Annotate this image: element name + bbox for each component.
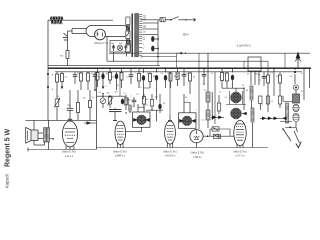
resistor R12 [77,90,80,120]
title Regent 5 W (model, rotated) [5,128,12,167]
svg-text:10: 10 [258,75,261,77]
oscillator coil core [211,92,213,120]
svg-text:50: 50 [193,76,196,78]
svg-text:125: 125 [143,27,146,29]
wire x96.5 drop [96,72,98,150]
resistor R10 [138,68,141,88]
tube VA grid cap [113,114,117,121]
svg-text:s EBF 2 n: s EBF 2 n [115,156,126,158]
svg-text:2: 2 [261,105,262,107]
label tube VD [233,151,247,157]
svg-text:0,1: 0,1 [146,104,149,106]
wire bus B+ top (y53) [109,52,310,54]
capacitor C15 [262,72,267,86]
label R2 value [60,56,64,58]
svg-text:0,1: 0,1 [225,97,228,99]
svg-text:0,5: 0,5 [57,96,60,98]
bandfilter arrow right [242,112,247,115]
wire speaker top bus y120.3 [26,119,97,121]
mains plug arrow [185,18,195,21]
fuse F1 [141,18,165,22]
svg-text:468: 468 [127,99,130,101]
label capacitor note [237,45,252,47]
antenna coil oval 1 [293,104,299,111]
label osc values [242,85,248,93]
capacitor C11 [132,97,137,107]
oscillator coil L2 [206,53,210,110]
wire x274 [273,68,275,96]
diode D5 [268,117,272,121]
wire bus y65.6 [48,65,160,67]
transformer taps [139,15,142,56]
resistor R8 [115,72,118,90]
resistor R24b [259,96,262,110]
svg-text:(Valvo E.Tel.): (Valvo E.Tel.) [233,151,247,153]
svg-text:1n: 1n [211,73,213,75]
svg-text:0,1: 0,1 [132,106,135,108]
misc speckle labels [57,85,303,122]
electrolytic C9 [142,68,145,88]
wave trap box [248,57,261,71]
wire bus y71.8 [55,71,302,73]
coupling capacitor C10 [67,90,74,119]
wire mains tap vertical [157,20,159,57]
capacitor C7 [109,68,112,84]
resistor R4 [61,72,64,89]
svg-text:50: 50 [219,92,221,94]
antenna symbol [295,52,301,69]
diode D3 [260,117,272,121]
wire OT connections [34,120,54,149]
resistor R16 [217,95,220,114]
wire HT feed vertical [47,20,49,65]
diode D4 [272,117,282,121]
svg-text:0,1: 0,1 [271,101,274,103]
svg-text:(Valvo E.Tel.): (Valvo E.Tel.) [191,153,205,155]
switch blade diagonal [282,128,291,141]
wire x285 y56-68 [284,53,286,68]
bandfilter coil block 1 [230,92,241,103]
resistor R27 horizontal [214,134,221,138]
wire rounded-loop drop [106,37,108,41]
diode D6 [282,117,287,121]
wire vertical T1 bottom to y56.5 [140,57,142,58]
svg-text:0,1: 0,1 [270,73,274,75]
capacitor C5 [73,72,78,84]
resistor R7 [96,68,99,87]
svg-text:0,1: 0,1 [99,92,102,94]
tuning capacitor plates CA [109,108,122,114]
svg-text:ZF: ZF [136,94,139,96]
resistor R6 [87,72,90,90]
coil L1 [125,95,128,110]
label tube VA [113,151,127,157]
tiny value labels row2 [167,73,303,79]
tube VA pins [118,143,124,148]
resistor R17 [164,68,167,88]
svg-text:0,1: 0,1 [92,97,95,99]
potentiometer P1 volume [54,92,60,120]
pilot lamp box [110,41,131,53]
tube VA [115,121,126,144]
resistor R15 [150,94,153,110]
IF transformer can 2 [179,113,197,129]
IF1 tuning arrow left [133,118,138,122]
svg-text:0,1: 0,1 [161,73,165,75]
filter capacitor C3 electrolytic [151,36,159,42]
svg-text:1M: 1M [106,73,109,75]
svg-text:5k: 5k [247,74,250,76]
svg-text:2n: 2n [301,73,303,75]
wire right links [280,96,296,128]
svg-text:(Valvo E.Tel.): (Valvo E.Tel.) [113,151,127,153]
resistor R14 [143,94,146,110]
svg-text:4V: 4V [143,39,146,41]
wire y96 segment [97,96,127,97]
antenna coil oval 2 [293,113,299,121]
diode arrow D1 [84,121,97,125]
wire bus y62 [107,60,268,62]
output tube V1 [62,121,77,147]
svg-text:0: 0 [143,44,144,46]
wire x244 y62-68 [243,61,245,68]
resistor R2 [66,47,69,66]
antenna coil L5 [251,108,254,148]
resistor R3 [56,72,59,92]
resistor R21 [221,68,224,88]
svg-text:0,1: 0,1 [202,120,205,122]
svg-text:s AB 2 n: s AB 2 n [193,156,202,159]
wire y110 segment [146,110,163,111]
svg-text:(Valvo E.Tel.): (Valvo E.Tel.) [62,152,76,154]
resistor R26 [278,96,281,108]
label tilde [183,32,185,35]
resistor R25 [279,72,282,96]
resistor R13 [89,90,92,121]
output transformer T2 [44,128,50,143]
junction dots on buses [56,67,305,69]
svg-text:4µF: 4µF [119,43,123,45]
svg-text:Regent 5 W: Regent 5 W [5,128,12,167]
label tube VC [191,153,205,159]
potentiometer P2 [108,95,113,108]
svg-text:µµ: µµ [242,85,245,87]
wire x156.5 [156,110,158,121]
label tube VB [163,151,177,157]
svg-text:0,5: 0,5 [204,90,207,92]
wire bus y56.5 [141,56,177,58]
svg-text:s ECH 3 n: s ECH 3 n [165,156,176,158]
svg-text:4µF: 4µF [111,43,115,45]
heater loop around rectifier [86,26,129,37]
wire IF1 top connections [138,104,144,112]
wire VC cathode down [196,143,198,148]
oscillator coil L3 [206,110,210,128]
electrolytic C9b [155,68,158,100]
resistor R22 [226,72,229,88]
title Kapsch (brand, rotated) [5,173,10,188]
svg-text:950: 950 [60,56,64,58]
label rectifier (Valvo) VY2 [94,42,108,45]
tube VD pins [237,145,243,148]
svg-text:0,2: 0,2 [290,76,294,78]
svg-text:0,3: 0,3 [139,87,142,89]
tube VB [165,121,176,144]
labels filter caps [111,43,123,45]
capacitor C13 [182,68,187,86]
resistor R9 [120,68,123,88]
resistor R20 [189,72,192,94]
tube VB grid cap [168,115,172,121]
svg-text:10: 10 [301,91,303,93]
pilot lamp La [117,45,122,50]
tube VC [190,130,203,143]
ground wire diagonal [294,127,300,143]
tube VD [234,120,246,145]
svg-text:1: 1 [195,110,196,112]
svg-text:1nF: 1nF [114,91,118,93]
svg-text:50k: 50k [106,93,109,95]
capacitor C14 [202,68,207,85]
capacitor C2b [124,45,127,52]
wire x199 y53-71.8 [198,53,200,72]
IF2 tuning arrow left [179,119,184,123]
wire oscillator links [222,88,246,111]
wire x304 [303,68,305,100]
svg-text:50: 50 [146,99,148,101]
IF1 winding coil [129,105,131,113]
node e (pickup tap 2) [47,86,54,91]
transformer tap bundle wires [142,23,158,35]
wire x199 vertical [198,72,200,129]
svg-text:50: 50 [163,103,165,105]
wire heater line left y149.5 [28,148,97,152]
resistor R11 [149,72,152,88]
wire x176.5 y53-68 [176,53,178,68]
arrow on bus y53 [177,52,187,55]
svg-text:50: 50 [98,77,101,79]
bandfilter coil block 2 [230,108,241,119]
svg-text:s CY 2 n: s CY 2 n [236,156,246,158]
ground arrow [296,142,301,148]
svg-text:1: 1 [135,73,137,75]
filter capacitor C4 electrolytic [151,46,159,52]
IF1 tuning arrow right [145,118,150,122]
trimmer C17 [293,85,298,94]
svg-text:50: 50 [174,76,177,78]
grid cap tube V1 [68,118,72,120]
transformer T1 secondary winding [135,14,139,57]
coil L1 core line [125,98,128,114]
loudspeaker SPK [26,127,38,143]
wire heater line bottom [97,147,269,149]
dark blob component [121,99,124,105]
meter M1 [100,95,106,108]
wire vertical x107 loop to y62 [106,41,108,62]
tiny labels cluster mid [99,74,262,112]
svg-text:0,1: 0,1 [123,93,126,95]
svg-text:50: 50 [185,97,187,99]
svg-text:(Valvo) VY 2: (Valvo) VY 2 [94,42,108,45]
svg-text:e: e [52,88,54,91]
transformer T1 primary winding [126,17,130,53]
svg-text:30: 30 [246,90,248,92]
capacitor C1 with arrow [63,31,68,47]
capacitor C6 [93,72,98,91]
capacitor C8 [129,68,134,84]
svg-text:4: 4 [143,48,144,50]
tiny value labels row1 [65,73,165,79]
svg-text:2: 2 [120,73,122,75]
tube VB pins [167,143,172,148]
wire x160 y56-65.6 [157,56,159,66]
switch S1 mains [165,17,190,21]
RF coil L6 [286,103,289,123]
rectifier tube V5 [95,29,106,40]
electrolytic C12 [158,94,161,113]
label mains 220V [183,34,191,37]
wire can1 bottom link [126,127,142,131]
antenna coil block crosshatch [293,94,300,103]
wire x309 right edge [309,68,311,88]
wire top HT line [48,19,113,21]
electrolytic C16 [294,68,296,84]
svg-text:0,1: 0,1 [65,77,69,79]
svg-text:0,5: 0,5 [127,77,131,79]
wire x170 grid feed [169,72,171,115]
wire speaker connections [34,120,43,138]
wire x215 vertical [214,72,216,124]
IF2 tuning arrow right [191,119,196,123]
wire wave trap internals [251,71,259,85]
svg-text:a: a [52,74,54,77]
diode D2 [211,116,224,120]
svg-text:110: 110 [143,31,146,33]
wire x268 y62-68 [267,61,269,68]
svg-text:5000: 5000 [67,105,71,107]
wire loop to cap branch [68,29,87,34]
wire IF2 top connections [184,94,190,113]
svg-text:1M: 1M [83,98,86,100]
wire lamp box to bus [114,52,127,62]
svg-text:Kapsch: Kapsch [5,173,10,188]
resistor R5 [80,72,83,90]
wire elco join y88 [143,88,150,99]
svg-text:2: 2 [105,86,106,88]
node a (pickup tap) [47,73,54,77]
transformer T1 core [131,14,133,58]
resistor R28 horizontal [210,127,230,136]
electrolytic C7b [101,72,104,95]
resistor R18 [169,72,172,88]
svg-text:2: 2 [218,76,220,78]
IF transformer can 1 [133,112,151,127]
svg-text:50: 50 [117,85,119,87]
svg-text:1: 1 [283,73,285,75]
svg-text:2M: 2M [155,96,158,98]
label tube V1 [62,152,76,158]
wire x120 top grid feed [119,72,121,96]
wire main chassis bus y68 (thick) [48,67,311,69]
wire input feed x48 [47,66,49,121]
svg-text:(Valvo E.Tel.): (Valvo E.Tel.) [163,151,177,153]
tube V1 pins [66,146,74,149]
resistor R19 [176,68,179,86]
antenna coil L4 [250,86,253,108]
electrolytic C14b [231,68,234,88]
wire VC anode right [203,135,234,137]
resistor R24 [266,96,269,112]
svg-text:s AL 4 n: s AL 4 n [65,155,74,158]
svg-text:2: 2 [130,95,131,97]
capacitor C2 [112,45,115,52]
resistor R1 mains dropper (zigzag) [50,16,63,24]
transformer tap voltage labels [143,15,146,50]
svg-text:0,1µF=30V~U: 0,1µF=30V~U [237,45,252,47]
resistor R23 [267,68,270,96]
